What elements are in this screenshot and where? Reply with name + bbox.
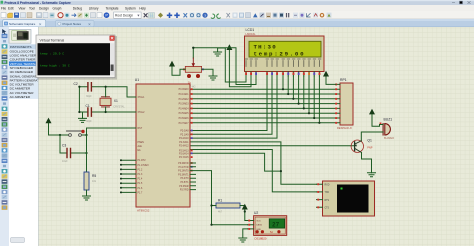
- crystal X1: [100, 98, 111, 105]
- svg-text:P0.7/AD7: P0.7/AD7: [179, 122, 190, 125]
- svg-text:30pF: 30pF: [86, 95, 92, 98]
- pin P3 stubs: [190, 163, 196, 190]
- svg-text:BUZZER: BUZZER: [384, 137, 394, 140]
- wire P3.3 to R1 node and U2 DATA: [190, 171, 248, 225]
- svg-text:P1.6: P1.6: [138, 188, 143, 190]
- pin connection marks U1 right: [191, 88, 193, 171]
- svg-text:P3.6/WR: P3.6/WR: [179, 186, 189, 188]
- svg-text:Edit: Edit: [8, 7, 14, 11]
- svg-text:P1.0/T2: P1.0/T2: [138, 160, 147, 162]
- svg-text:C3: C3: [62, 144, 66, 148]
- svg-text:XTAL1: XTAL1: [138, 96, 146, 99]
- toolbar: [0, 11, 474, 19]
- svg-text:P0.0/AD0: P0.0/AD0: [179, 88, 190, 91]
- svg-text:temp high : 30 C: temp high : 30 C: [40, 64, 70, 68]
- svg-text:Library: Library: [89, 7, 99, 11]
- ground (Q1): [368, 173, 376, 177]
- ground (R5): [83, 196, 91, 200]
- svg-text:RTS: RTS: [325, 200, 330, 202]
- svg-text:P1.5: P1.5: [138, 183, 143, 185]
- wire R1 to VCC rail and U2 VDD: [240, 206, 254, 221]
- wire LCD RS RW E to U1 P2.0-P2.2: [190, 76, 277, 138]
- power VCC arrow (RV1): [169, 61, 175, 67]
- wire U1 P2.6 jog: [190, 153, 281, 171]
- svg-text:C2: C2: [74, 82, 78, 86]
- svg-text:INSTRUMENTS: INSTRUMENTS: [10, 45, 32, 49]
- left icon strip: [0, 27, 9, 246]
- wire U2 GND to ground: [243, 229, 248, 238]
- capacitor C3: [60, 135, 87, 172]
- svg-text:C1: C1: [86, 104, 90, 108]
- svg-text:CTS: CTS: [325, 208, 330, 210]
- inactive tab: Project Notes: [56, 20, 95, 27]
- power VCC arrow (R1/U2): [242, 204, 248, 210]
- svg-text:RXD: RXD: [325, 184, 330, 186]
- svg-text:P3.5/T1: P3.5/T1: [180, 182, 189, 184]
- temperature sensor U2 DS18B20: [254, 216, 287, 236]
- pin labels LCD vertical: [245, 59, 321, 67]
- svg-text:P0.5/AD5: P0.5/AD5: [179, 112, 190, 115]
- svg-text:U2: U2: [254, 211, 258, 215]
- svg-text:P3.1/TXD: P3.1/TXD: [179, 167, 189, 169]
- toolbar combo box: [114, 12, 141, 18]
- instruments list: [9, 49, 39, 99]
- svg-text:ALE: ALE: [138, 145, 143, 148]
- wire RP1 common to VCC: [326, 77, 336, 85]
- svg-text:Proteus 8 Professional - Schem: Proteus 8 Professional - Schematic Captu…: [5, 1, 71, 5]
- svg-text:P2.1/A9: P2.1/A9: [180, 133, 189, 136]
- svg-text:P1.1/T2EX: P1.1/T2EX: [138, 165, 150, 167]
- svg-text:DATA: DATA: [256, 224, 262, 227]
- resistor pack RP1 RESPACK-8: [340, 83, 353, 125]
- svg-text:P2.4/A12: P2.4/A12: [179, 145, 189, 148]
- svg-text:P2.0/A8: P2.0/A8: [180, 130, 189, 133]
- ground (U2): [239, 238, 247, 242]
- svg-text:P2.3/A11: P2.3/A11: [179, 141, 189, 144]
- svg-text:X1: X1: [114, 99, 118, 103]
- tab bar: [0, 19, 474, 27]
- svg-text:Virtual Terminal: Virtual Terminal: [40, 38, 65, 42]
- LCD1 LM016L display: [245, 36, 325, 72]
- wire U1 P2.5 to Q1 base: [190, 145, 355, 147]
- svg-text:Schematic Capture: Schematic Capture: [9, 22, 36, 26]
- wire P0 bus horizontals U1 to RP1: [190, 89, 336, 123]
- svg-text:P0.4/AD4: P0.4/AD4: [179, 107, 190, 110]
- svg-text:DS18B20: DS18B20: [255, 236, 267, 240]
- svg-text:CRYSTAL: CRYSTAL: [113, 106, 125, 109]
- svg-text:temp:29.00: temp:29.00: [254, 51, 306, 58]
- power VCC arrow (BUZ1): [369, 109, 375, 115]
- svg-text:P3.7/RD: P3.7/RD: [180, 190, 189, 192]
- wire LCD VSS to ground: [218, 48, 246, 82]
- microcontroller U1 AT89C52: [136, 84, 190, 207]
- svg-text:System: System: [125, 7, 136, 11]
- node junction dots on data bus: [282, 88, 321, 124]
- svg-text:Help: Help: [139, 7, 146, 11]
- virtual terminal instrument: [323, 181, 375, 216]
- wire reset rail: [49, 128, 137, 135]
- svg-text:P3.0/RXD: P3.0/RXD: [178, 163, 189, 165]
- ground (LCD VSS): [214, 52, 222, 56]
- svg-text:RESPACK-8: RESPACK-8: [337, 126, 352, 130]
- resistor R1: [216, 203, 240, 208]
- pin stubs RP1: [336, 84, 340, 122]
- active tab: Schematic Capture: [3, 20, 46, 27]
- wire buzzer to Q1 collector: [361, 132, 383, 141]
- svg-text:R5: R5: [92, 174, 96, 178]
- pin connection marks LCD: [245, 72, 320, 75]
- capacitor C2: [79, 87, 136, 97]
- wire LCD VEE to RV1 wiper: [193, 48, 256, 85]
- pin XTAL1/XTAL2/RST stubs: [131, 97, 137, 128]
- pin stubs LCD: [246, 72, 319, 77]
- capacitor C1: [79, 111, 136, 113]
- svg-text:P1.2: P1.2: [138, 169, 143, 171]
- svg-text:P0.6/AD6: P0.6/AD6: [179, 117, 190, 120]
- svg-text:View: View: [19, 7, 27, 11]
- svg-text:R1: R1: [218, 199, 222, 203]
- svg-text:P3.2/INT0: P3.2/INT0: [178, 171, 189, 173]
- power VCC arrow (LCD VDD): [229, 50, 251, 87]
- svg-text:P1.3: P1.3: [138, 174, 143, 176]
- svg-text:P3.4/T0: P3.4/T0: [180, 178, 189, 180]
- svg-text:5A: 5A: [270, 231, 273, 234]
- node reset junctions: [59, 134, 61, 136]
- svg-text:Design: Design: [39, 7, 49, 11]
- node cap rail dots: [78, 86, 80, 88]
- wire caps common rail: [79, 87, 82, 119]
- resistor R5: [84, 172, 89, 190]
- power VCC arrow (RP1): [323, 71, 329, 77]
- potentiometer RV1: [185, 66, 201, 72]
- svg-text:P1.7: P1.7: [138, 192, 143, 194]
- transistor Q1: [351, 140, 363, 152]
- power VCC arrow (reset): [46, 118, 52, 124]
- svg-text:Q1: Q1: [367, 139, 372, 143]
- svg-text:U1: U1: [135, 78, 139, 82]
- svg-text:Template: Template: [106, 7, 119, 11]
- wire RV1 right terminal to ground: [202, 69, 213, 76]
- svg-text:Tool: Tool: [29, 7, 35, 11]
- svg-text:temp : 29.9 C: temp : 29.9 C: [40, 51, 64, 55]
- ground (crystal caps): [79, 118, 87, 122]
- svg-text:P2.5/A13: P2.5/A13: [179, 150, 189, 153]
- svg-text:27: 27: [272, 222, 280, 229]
- svg-text:AT89C52: AT89C52: [137, 209, 150, 213]
- svg-text:P2.6/A14: P2.6/A14: [179, 152, 189, 155]
- svg-text:4k7: 4k7: [218, 211, 223, 214]
- svg-text:P0.1/AD1: P0.1/AD1: [179, 93, 190, 96]
- svg-text:PSEN: PSEN: [138, 142, 145, 144]
- instruments header: [9, 44, 39, 49]
- svg-text:P: P: [105, 13, 108, 18]
- ground (RV1): [209, 76, 217, 80]
- svg-text:P0.2/AD2: P0.2/AD2: [179, 98, 190, 101]
- svg-text:LM016L: LM016L: [246, 32, 257, 36]
- svg-text:TXD: TXD: [325, 192, 330, 194]
- svg-text:✕: ✕: [88, 22, 91, 26]
- left panel: [9, 27, 39, 246]
- svg-text:Graph: Graph: [53, 7, 62, 11]
- menu bar: [0, 5, 474, 11]
- svg-text:P1.4: P1.4: [138, 179, 143, 181]
- pin P1.0-P1.7 stubs with node dots: [121, 160, 137, 192]
- svg-text:RST: RST: [138, 128, 143, 130]
- wire VCC to buzzer: [372, 114, 383, 126]
- svg-text:Project Notes: Project Notes: [63, 22, 82, 26]
- svg-text:GND: GND: [256, 229, 261, 231]
- pin stubs U2: [248, 221, 254, 229]
- svg-text:P2.7/A15: P2.7/A15: [179, 156, 189, 159]
- preview box: [9, 30, 31, 44]
- svg-text:RP1: RP1: [340, 78, 347, 82]
- svg-text:Root Design: Root Design: [115, 14, 133, 18]
- wire RV1 left terminal to VCC: [172, 67, 185, 76]
- wire U1 P2.6 to terminal RXD: [190, 142, 317, 184]
- svg-text:Debug: Debug: [73, 7, 83, 11]
- svg-text:30pF: 30pF: [86, 120, 92, 123]
- svg-text:File: File: [1, 7, 6, 11]
- pin labels P0 P2 P3 right side: [178, 88, 189, 191]
- svg-text:VDD: VDD: [256, 220, 261, 222]
- svg-text:PNP: PNP: [367, 146, 373, 150]
- title bar: [0, 0, 474, 5]
- node wiper junction: [192, 47, 194, 49]
- svg-text:✕: ✕: [39, 22, 42, 26]
- wire Q1 emitter to ground: [362, 153, 372, 173]
- svg-text:EA: EA: [138, 149, 142, 152]
- push button (reset): [69, 134, 72, 137]
- pin stubs terminal: [317, 184, 323, 207]
- svg-text:BUZ1: BUZ1: [384, 117, 393, 121]
- wire U1 P2.7 to terminal TXD: [190, 150, 317, 192]
- svg-text:P0.3/AD3: P0.3/AD3: [179, 103, 190, 106]
- wire LCD data verticals D0-D7: [283, 76, 319, 123]
- svg-text:P2.2/A10: P2.2/A10: [179, 137, 189, 140]
- svg-text:AC AMMETER: AC AMMETER: [10, 95, 31, 99]
- svg-text:P3.3/INT1: P3.3/INT1: [178, 174, 189, 176]
- svg-text:XTAL2: XTAL2: [138, 111, 146, 114]
- svg-text:10uF: 10uF: [62, 160, 68, 163]
